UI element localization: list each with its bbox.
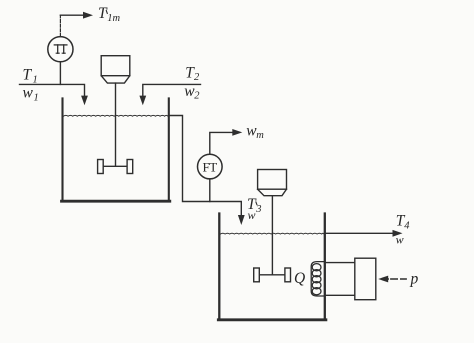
outlet stream T4 <box>325 232 398 234</box>
svg-text:w: w <box>396 232 404 246</box>
arrowhead wm <box>232 129 242 136</box>
svg-text:1: 1 <box>33 74 38 85</box>
stream T2/w2 inlet line <box>143 84 201 96</box>
arrowhead T1m <box>83 12 93 19</box>
actuator connecting lines <box>325 263 355 296</box>
wire TT to inlet stream <box>59 62 61 85</box>
outlet pipe tank1 to tank2 <box>169 116 242 217</box>
svg-text:4: 4 <box>404 220 410 231</box>
tank 1 walls <box>63 98 169 201</box>
arrowhead inlet 2 <box>139 96 146 106</box>
arrowhead inlet 1 <box>81 96 88 106</box>
svg-text:w: w <box>248 208 256 222</box>
svg-text:1m: 1m <box>107 13 120 24</box>
svg-text:FT: FT <box>203 160 218 175</box>
agitator shaft 1 <box>115 83 117 166</box>
svg-text:3: 3 <box>255 204 261 215</box>
agitator motor M1 <box>101 56 130 83</box>
svg-text:T: T <box>23 67 33 84</box>
agitator motor M2 <box>258 170 287 196</box>
svg-text:m: m <box>256 130 264 141</box>
svg-text:2: 2 <box>194 91 200 102</box>
tank 1 liquid surface <box>64 114 169 117</box>
svg-text:w: w <box>23 85 34 102</box>
control signal p dashed arrow <box>378 276 388 283</box>
heater coil <box>311 262 325 296</box>
svg-text:1: 1 <box>34 92 39 103</box>
tank 2 walls <box>219 214 324 320</box>
impeller 1 <box>98 160 133 174</box>
impeller 2 <box>254 268 291 282</box>
TT label <box>54 45 67 53</box>
svg-text:2: 2 <box>194 72 200 83</box>
wire FT to pipe <box>209 179 211 202</box>
agitator shaft 2 <box>271 196 273 275</box>
svg-text:p: p <box>410 271 419 288</box>
svg-text:Q: Q <box>294 270 305 287</box>
transmitter TT circle <box>48 37 73 62</box>
transmitter FT circle <box>198 154 223 179</box>
signal wire TT to T1m arrow <box>59 15 61 36</box>
arrowhead T4 <box>393 230 403 237</box>
tank 2 liquid surface <box>221 232 325 235</box>
signal wire FT to wm arrow <box>210 132 234 154</box>
actuator body <box>355 258 376 300</box>
stream T1/w1 inlet line <box>20 84 85 96</box>
arrowhead into tank2 <box>238 215 245 225</box>
